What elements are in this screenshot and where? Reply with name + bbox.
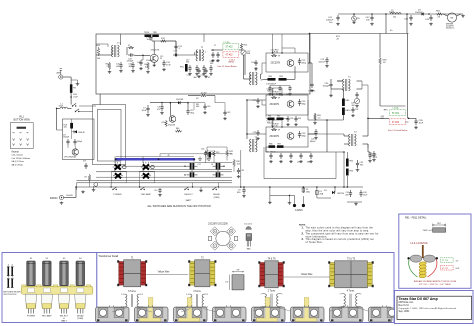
label S2 (42, 314, 52, 317)
capacitor C42 (366, 15, 374, 25)
transistor Q4 (270, 133, 294, 140)
svg-text:2SC2879: 2SC2879 (270, 136, 280, 138)
leader (253, 308, 290, 312)
transistor pinout 2SC2879 case (209, 227, 238, 250)
svg-text:DELAY: DELAY (77, 314, 84, 317)
transformer T1 photo (117, 258, 147, 287)
svg-text:HuF 39: HuF 39 (267, 91, 273, 93)
transformer T2 photo (188, 258, 216, 287)
resistor R33 (213, 150, 220, 157)
svg-text:WATT: WATT (61, 320, 68, 323)
final stage B box (266, 127, 308, 147)
resistor R41 (96, 45, 101, 60)
note see L4 detail (388, 129, 408, 132)
inductor sym B (7, 276, 14, 287)
wire (326, 120, 328, 152)
note line (302, 226, 374, 229)
transformer detail box (97, 253, 394, 323)
switch S3 cap (60, 258, 69, 286)
ground pwr2 (288, 202, 292, 205)
transistor Q3 (270, 101, 294, 108)
wire (191, 170, 193, 173)
wire (169, 103, 171, 116)
transformer T5 (331, 77, 362, 92)
ground pwr3 (354, 203, 358, 206)
svg-text:C28: C28 (290, 118, 293, 120)
wire (335, 152, 337, 179)
wire (239, 50, 244, 79)
capacitor C33 (346, 190, 353, 197)
capacitor C21 (208, 65, 213, 79)
relay RL5 coil (140, 171, 155, 183)
wire (203, 34, 205, 42)
svg-text:C1: C1 (196, 70, 198, 72)
ferrite bead FB11 (70, 84, 77, 93)
dimension toroid (456, 260, 460, 270)
junction (187, 102, 189, 104)
switch S4 body (75, 294, 86, 313)
junction (75, 186, 77, 188)
wire (116, 156, 194, 158)
capacitor C24 (251, 60, 258, 70)
insulator yellow stem PKG6 (304, 298, 309, 319)
label yellow wire 2 (301, 274, 313, 276)
wire (114, 157, 116, 164)
junction (110, 186, 111, 187)
label R1B (64, 125, 68, 129)
capacitor C5B (216, 52, 220, 63)
capacitor C13b (319, 57, 329, 67)
ground sw1 (199, 157, 202, 162)
wire (71, 80, 77, 83)
wire (262, 100, 266, 105)
svg-text:1/2": 1/2" (456, 260, 459, 262)
junction (303, 186, 305, 188)
resistor R44 (128, 45, 134, 49)
switch S1 cap (27, 258, 36, 286)
ferrite bead FB4 (268, 76, 276, 81)
note switches (147, 204, 210, 208)
wire (247, 99, 266, 101)
wire (68, 132, 75, 149)
wire (346, 152, 348, 187)
svg-text:1: 1 (186, 294, 187, 296)
svg-text:42: 42 (168, 155, 170, 157)
corner pins PKG3 (175, 305, 206, 321)
wire (281, 34, 283, 53)
diode D4 (415, 10, 424, 16)
svg-text:.01uF: .01uF (73, 96, 79, 98)
junction (385, 13, 387, 15)
wire (206, 157, 208, 160)
svg-text:1: 1 (121, 294, 122, 296)
svg-text:390: 390 (360, 164, 363, 166)
note line (306, 241, 323, 244)
label transformer detail (98, 255, 118, 258)
junction (334, 186, 336, 188)
mounting pads PKG6 (293, 308, 319, 318)
capacitor C14b (213, 172, 224, 177)
svg-text:C20: C20 (201, 75, 205, 77)
svg-text:5T #22: 5T #22 (226, 47, 234, 49)
wire (110, 183, 112, 187)
wire (192, 182, 194, 187)
svg-text:amp. Also the wire color will: amp. Also the wire color will vary from … (306, 229, 370, 232)
capacitor C1B (266, 84, 277, 96)
junction (192, 186, 193, 187)
svg-text:880: 880 (176, 128, 179, 130)
wire (96, 44, 108, 47)
svg-text:1/2": 1/2" (225, 282, 229, 284)
transformer T4 T6 photo (258, 259, 284, 288)
insulator yellow base PKG3 (179, 308, 200, 321)
title block outer (395, 291, 474, 324)
label bias A (267, 89, 275, 93)
svg-text:See L2 Detail Below: See L2 Detail Below (217, 65, 237, 68)
junction (184, 166, 185, 167)
transformer T3 T5 photo (328, 259, 374, 288)
core detail (225, 270, 244, 290)
label L2 L4 detail (410, 242, 428, 245)
ground left1 (81, 190, 85, 193)
wire (70, 93, 72, 105)
label B+ (390, 30, 393, 32)
svg-text:RG-8X: RG-8X (67, 195, 74, 197)
junction (193, 158, 195, 160)
wire (368, 144, 370, 152)
mounting pads PKG7 (332, 308, 358, 318)
svg-text:14: 14 (211, 164, 213, 166)
wire T46-T35 (284, 276, 330, 278)
capacitor C43 (127, 53, 135, 62)
note bifilar (414, 280, 457, 286)
potentiometer R5 (85, 174, 91, 187)
capacitor C19 (194, 65, 199, 79)
junction (161, 102, 163, 104)
svg-text:ALL SWITCHES ARE SHOWN IN THE: ALL SWITCHES ARE SHOWN IN THE OFF POSITI… (147, 204, 210, 208)
svg-text:360: 360 (186, 62, 189, 64)
svg-text:680: 680 (346, 194, 349, 196)
junction (309, 33, 311, 35)
label RADIO (50, 197, 58, 200)
wire (265, 147, 267, 152)
capacitor C32a (269, 153, 273, 163)
wire (272, 34, 274, 53)
svg-text:10uF: 10uF (142, 110, 147, 112)
exciter enclosure box (96, 34, 310, 94)
svg-text:470: 470 (157, 109, 160, 111)
wire (96, 176, 232, 178)
svg-text:FB7: FB7 (278, 144, 282, 146)
junction (170, 102, 172, 104)
svg-text:100: 100 (64, 127, 67, 129)
switch S4 cap (76, 258, 85, 286)
svg-text:1000pF: 1000pF (323, 85, 331, 87)
diode package TO-39 (246, 227, 252, 230)
svg-text:4T #22: 4T #22 (442, 268, 448, 270)
svg-text:360: 360 (286, 94, 289, 96)
svg-text:1: 1 (261, 294, 262, 296)
note line (302, 232, 379, 235)
resistor R43 (145, 62, 150, 73)
svg-text:2.: 2. (302, 232, 304, 235)
mounting pads PKG3 (176, 308, 202, 318)
switch S1 symbol (112, 187, 122, 196)
trimmer C1B (241, 50, 251, 55)
svg-text:FB4: FB4 (268, 116, 271, 118)
resistor R17 (271, 54, 280, 57)
capacitor C4B ant (73, 94, 79, 98)
svg-text:C24: C24 (251, 62, 255, 64)
mounting holes PKG4 (216, 309, 239, 316)
junction (272, 52, 273, 53)
relay RL4 coil (112, 171, 127, 183)
svg-text:2SC2078: 2SC2078 (271, 63, 281, 65)
junction (281, 126, 282, 127)
svg-text:.01: .01 (208, 77, 211, 79)
wire (193, 103, 195, 110)
label exciter parts (186, 60, 190, 64)
capacitor C16 (173, 51, 179, 57)
winding diagram T1 (121, 290, 143, 309)
insulator yellow stem PKG5 (265, 298, 270, 319)
capacitor C28b (351, 92, 360, 107)
switch S2 symbol (140, 187, 151, 196)
wire (244, 78, 251, 80)
label RL1 detail (14, 116, 31, 122)
ground C26 (329, 94, 333, 97)
winding diagram T2 (186, 290, 208, 309)
wire (139, 183, 141, 187)
ground ant right (76, 83, 80, 86)
svg-text:C11: C11 (198, 164, 201, 166)
capacitor C15 (186, 108, 194, 115)
switch S1 body (25, 294, 36, 313)
capacitor C31 (266, 152, 277, 154)
wire (327, 151, 344, 153)
wire (317, 187, 331, 198)
transistor Q1 (150, 50, 163, 63)
insulator yellow base PKG6 (296, 308, 317, 321)
coil yellow toroid winding (419, 261, 427, 278)
svg-text:1/2" O.D. - 5/16" I.D. - 1/4": 1/2" O.D. - 5/16" I.D. - 1/4" THICK (419, 284, 451, 286)
svg-text:Aromat: Aromat (11, 151, 19, 154)
capacitor C29b (253, 130, 260, 140)
wire green winding (409, 260, 418, 278)
capacitor C7 (142, 105, 150, 116)
junction (240, 186, 242, 188)
junction (371, 13, 373, 15)
label C17b (63, 135, 70, 139)
leader (330, 308, 368, 312)
junction (246, 133, 248, 135)
coil L4 winding red (390, 119, 406, 125)
svg-text:5T #22: 5T #22 (442, 260, 448, 262)
capacitor C18 (187, 65, 192, 77)
svg-text:390: 390 (352, 105, 355, 107)
svg-text:680: 680 (196, 106, 199, 108)
diode D6 (74, 130, 85, 134)
svg-text:3.: 3. (302, 238, 304, 241)
connector ANT (57, 72, 63, 80)
wire (263, 147, 265, 179)
wire (282, 48, 295, 53)
svg-text:1N4148: 1N4148 (415, 12, 423, 14)
wire (215, 103, 225, 110)
relay contact RL1a (72, 103, 77, 106)
transistor package PKG1 (96, 307, 130, 322)
label RFC (384, 109, 389, 111)
wire (226, 157, 228, 160)
resistor R12 (160, 38, 167, 42)
svg-text:680uF: 680uF (310, 141, 316, 143)
switch S2 slot (43, 288, 50, 292)
svg-text:TR10: TR10 (144, 32, 150, 34)
capacitor bias Q3 (271, 92, 280, 96)
svg-text:17: 17 (214, 45, 216, 47)
ground pwr1 (268, 196, 272, 204)
wire (57, 107, 72, 109)
svg-text:5T #22: 5T #22 (392, 113, 400, 115)
svg-text:(SSB): (SSB) (77, 318, 83, 320)
wire (217, 170, 219, 173)
wire (75, 187, 77, 198)
wire (362, 85, 368, 118)
wire (218, 182, 220, 187)
capacitor C32 (356, 160, 363, 171)
svg-text:2N4126: 2N4126 (168, 125, 176, 127)
capacitor C6 (83, 161, 88, 170)
wire (334, 187, 336, 193)
junction (353, 13, 355, 15)
capacitor C43a (404, 15, 413, 25)
svg-text:1A @ 125vac: 1A @ 125vac (11, 160, 25, 163)
terminal 12VDC minus (293, 196, 296, 208)
svg-text:UPS 2N6263A: UPS 2N6263A (64, 156, 76, 159)
label 12VDC (295, 209, 303, 212)
svg-text:2SC2078: 2SC2078 (151, 50, 160, 52)
svg-text:POWER: POWER (27, 315, 36, 317)
capacitor C45 (116, 62, 123, 72)
svg-text:4T #22: 4T #22 (392, 122, 400, 124)
svg-text:10uF: 10uF (419, 122, 424, 124)
capacitor C2B10 (414, 118, 424, 129)
wire (76, 183, 78, 190)
connector ant relay (94, 183, 98, 189)
title url (399, 301, 414, 304)
insulator yellow stem PKG3 (187, 298, 192, 319)
svg-text:1.: 1. (302, 226, 304, 229)
capacitor C23 (298, 58, 307, 65)
relay RL3 contact (141, 162, 151, 170)
svg-text:26A: 26A (320, 192, 324, 195)
ferrite bead FB5b (277, 116, 284, 120)
wire (244, 55, 246, 75)
svg-text:C2: C2 (203, 72, 205, 74)
resistor R50 (436, 11, 443, 19)
capacitor C32b (279, 153, 283, 163)
wire (270, 85, 290, 87)
mounting holes PKG5 (255, 309, 278, 316)
capacitor C8 (157, 104, 164, 114)
transistor package PKG3 (174, 307, 208, 322)
corner pins PKG4 (214, 305, 245, 321)
wire (123, 165, 187, 167)
capacitor C62 (381, 116, 385, 120)
svg-text:FB4: FB4 (269, 76, 273, 78)
transformer T1 (112, 42, 128, 57)
junction (115, 158, 117, 160)
svg-text:OFF POSITION: OFF POSITION (3, 294, 17, 296)
svg-text:FB3: FB3 (350, 171, 354, 173)
wire (385, 14, 387, 34)
ferrite bead FB10 (342, 108, 351, 116)
switch S4 slot (77, 288, 84, 292)
resistor R31 (206, 149, 214, 157)
wire (179, 54, 197, 56)
leader (112, 308, 152, 312)
svg-text:1N4148: 1N4148 (176, 99, 184, 101)
coil L2 winding red (223, 52, 239, 58)
wire (207, 147, 227, 149)
svg-text:4T #22: 4T #22 (226, 55, 234, 57)
label S1 (27, 315, 36, 317)
svg-text:RADIO: RADIO (50, 197, 58, 200)
svg-text:39: 39 (278, 55, 280, 57)
wire (175, 41, 177, 44)
ground meter (461, 15, 465, 18)
wire T1-T2 (146, 274, 188, 276)
note see L2 detail (217, 65, 237, 68)
mounting holes PKG7 (333, 309, 356, 316)
label S4 (77, 314, 84, 320)
label S3 (60, 315, 69, 322)
wire (264, 178, 336, 180)
label R21 (336, 36, 341, 40)
relay contact RL1b (75, 109, 80, 112)
svg-text:10uH: 10uH (59, 105, 64, 107)
mounting pads PKG5 (254, 308, 280, 318)
capacitor C27 (253, 98, 260, 108)
switch S3 symbol (184, 187, 193, 202)
note switch positions (3, 292, 21, 297)
wire (175, 41, 177, 55)
capacitor C11 (187, 163, 201, 169)
capacitor C31b (297, 153, 303, 164)
toroid L2 L4 drawing (407, 245, 438, 262)
diode D1 (176, 99, 184, 104)
svg-text:of Texas Star.: of Texas Star. (306, 241, 323, 244)
svg-text:REC AMP: REC AMP (42, 314, 52, 317)
svg-text:2SC2879 2SC2290: 2SC2879 2SC2290 (208, 223, 228, 225)
label D2 (196, 98, 198, 100)
FB detail box (399, 214, 471, 288)
wire (150, 169, 232, 171)
svg-text:C48: C48 (207, 106, 210, 108)
title copyright (399, 307, 457, 310)
ferrite bead FB9 (342, 99, 350, 107)
svg-text:390: 390 (298, 118, 301, 120)
capacitor out Q3 (298, 99, 307, 106)
wire top bus (310, 33, 409, 35)
svg-text:5 Turns: 5 Turns (128, 290, 136, 293)
label yellow wire 1 (158, 271, 170, 273)
terminal 12VDC plus (302, 196, 305, 207)
wire (63, 76, 71, 78)
svg-text:26A: 26A (306, 190, 310, 193)
resistor R20 (313, 113, 322, 124)
svg-text:27uF: 27uF (166, 64, 171, 66)
